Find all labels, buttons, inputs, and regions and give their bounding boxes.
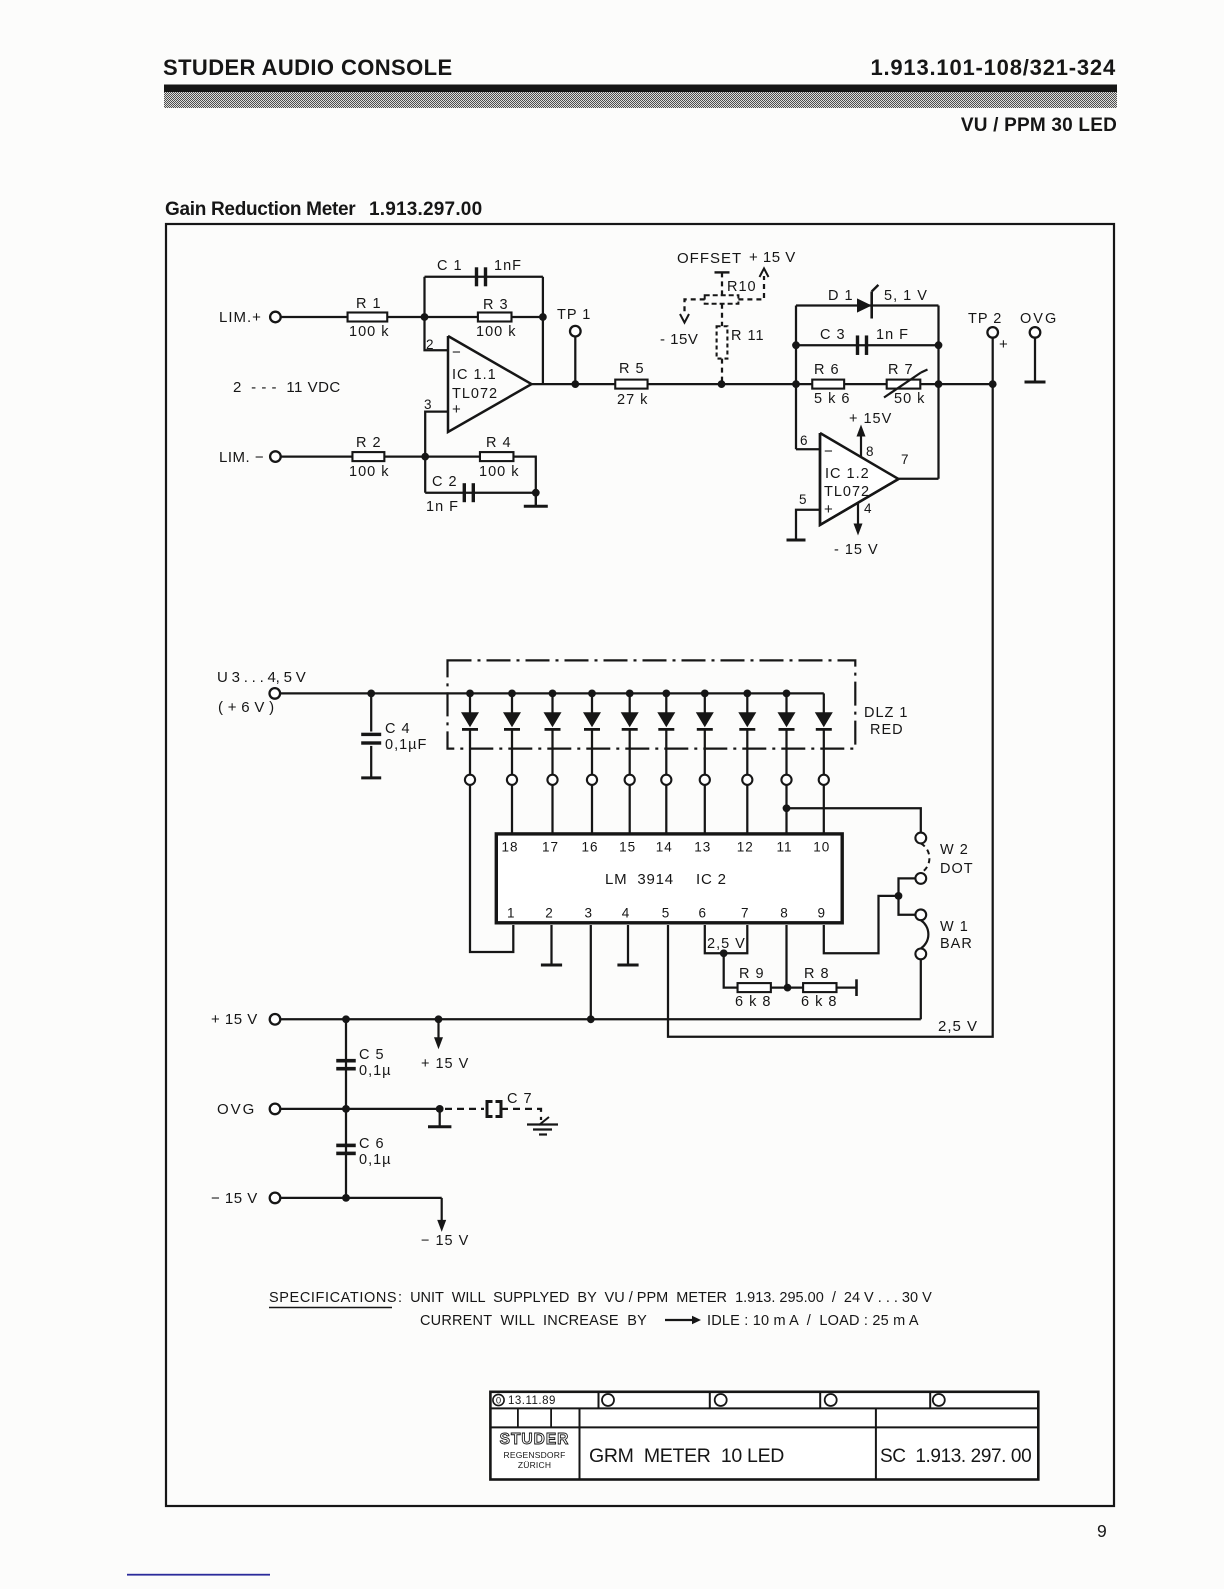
- wire W1 to +15V rail: [920, 959, 922, 1019]
- svg-text:IC 1.1: IC 1.1: [452, 367, 497, 383]
- jumper W2 DOT: [915, 833, 926, 844]
- diode DLZ1 element 3: [549, 690, 557, 698]
- svg-text:1n F: 1n F: [426, 499, 459, 515]
- svg-text:18: 18: [501, 840, 518, 855]
- connector pin circle column 4: [587, 775, 597, 785]
- svg-text:SPECIFICATIONS: SPECIFICATIONS: [269, 1290, 397, 1306]
- schematic border frame: [166, 224, 1114, 1506]
- svg-text:VU / PPM 30 LED: VU / PPM 30 LED: [961, 115, 1117, 136]
- svg-text:+: +: [999, 336, 1009, 353]
- wire column 8 to IC2 pin: [746, 785, 748, 834]
- revision circle: [715, 1394, 727, 1406]
- wire column 1 to IC2 pin 1: [470, 785, 513, 952]
- svg-text:R 7: R 7: [888, 362, 914, 378]
- title block middle divider: [875, 1408, 877, 1479]
- svg-text:−: −: [452, 344, 462, 361]
- title block top row line: [490, 1407, 1038, 1409]
- svg-text:4: 4: [622, 906, 631, 921]
- diode DLZ1 element 8: [743, 690, 751, 698]
- svg-text:11: 11: [776, 840, 792, 855]
- wire pin11 to W2: [783, 804, 791, 812]
- svg-text:−: −: [824, 443, 834, 460]
- diode DLZ1 element 2: [508, 690, 516, 698]
- svg-text:9: 9: [1097, 1521, 1107, 1541]
- connector pin circle column 1: [465, 775, 475, 785]
- diode DLZ1 element 6: [662, 690, 670, 698]
- svg-text:C 1: C 1: [437, 258, 463, 274]
- svg-text:R 4: R 4: [486, 435, 512, 451]
- OVG ground stub: [439, 1109, 441, 1127]
- op-amp IC1.2 TL072: [820, 433, 899, 525]
- wire column 3 to IC2 pin: [551, 785, 553, 834]
- revision circle: [602, 1394, 614, 1406]
- svg-text:5: 5: [799, 492, 808, 507]
- header black rule: [164, 85, 1117, 93]
- svg-text:27 k: 27 k: [617, 392, 648, 408]
- svg-text:+ 15V: + 15V: [849, 411, 892, 427]
- svg-text:DOT: DOT: [940, 861, 974, 877]
- connector pin circle column 3: [547, 775, 557, 785]
- wire +15V rail: [280, 1018, 921, 1020]
- connector pin circle column 7: [700, 775, 710, 785]
- svg-text:IC 2: IC 2: [696, 871, 727, 888]
- node TP2/output: [989, 380, 997, 388]
- wire column 9 to IC2 pin: [785, 785, 787, 834]
- svg-text:- 15V: - 15V: [660, 331, 698, 348]
- svg-text:OFFSET: OFFSET: [677, 250, 742, 267]
- svg-text:5: 5: [662, 906, 671, 921]
- svg-text:IC 1.2: IC 1.2: [825, 466, 870, 482]
- svg-text:LIM.+: LIM.+: [219, 309, 262, 326]
- svg-text:( + 6 V ): ( + 6 V ): [218, 699, 274, 716]
- svg-text:TL072: TL072: [452, 386, 498, 402]
- diode DLZ1 element 4: [588, 690, 596, 698]
- capacitor C6 0.1u: [345, 1109, 347, 1198]
- node C4 tap: [367, 690, 375, 698]
- resistor R5 27k: [615, 380, 647, 389]
- svg-text:LIM. −: LIM. −: [219, 449, 264, 466]
- svg-text:2,5 V: 2,5 V: [938, 1018, 978, 1035]
- svg-text:7: 7: [741, 906, 750, 921]
- svg-text:14: 14: [656, 840, 673, 855]
- title block frame: [490, 1392, 1038, 1480]
- connector pin circle column 5: [625, 775, 635, 785]
- node R2/R4/C2/pin3: [421, 453, 429, 461]
- IC2 pin 2 ground: [550, 925, 552, 965]
- svg-text:0: 0: [496, 1396, 501, 1407]
- svg-text:− 15 V: − 15 V: [211, 1190, 258, 1207]
- svg-text:REGENSDORF: REGENSDORF: [504, 1450, 566, 1460]
- svg-text:STUDER AUDIO CONSOLE: STUDER AUDIO CONSOLE: [163, 55, 453, 80]
- svg-text:100 k: 100 k: [479, 464, 519, 480]
- title block top row divider: [709, 1392, 711, 1409]
- svg-text:LM 3914: LM 3914: [605, 871, 674, 888]
- connector pin circle column 9: [781, 775, 791, 785]
- title block top row divider: [929, 1392, 931, 1409]
- svg-text:2 - - - 11 VDC: 2 - - - 11 VDC: [233, 379, 341, 396]
- svg-text:C 3: C 3: [820, 327, 846, 343]
- wire anode rail: [280, 692, 824, 694]
- svg-text:+ 15 V: + 15 V: [749, 249, 796, 266]
- svg-text:100 k: 100 k: [349, 464, 389, 480]
- trimmer R7 50k: [887, 380, 921, 389]
- svg-text:R 11: R 11: [731, 328, 765, 344]
- title block logo cell: [579, 1408, 581, 1479]
- svg-text:6 k 8: 6 k 8: [735, 994, 771, 1010]
- svg-text:6: 6: [699, 906, 708, 921]
- capacitor C5 0.1u: [345, 1019, 347, 1109]
- IC2 pin 8 wire down: [785, 925, 787, 988]
- dashed wire R10 left to -15V arrow: [685, 299, 705, 315]
- -15V branch arrow: [441, 1197, 443, 1199]
- svg-text:5 k 6: 5 k 6: [814, 391, 850, 407]
- connector pin circle column 2: [507, 775, 517, 785]
- svg-text:BAR: BAR: [940, 936, 973, 952]
- connector pin circle column 10: [819, 775, 829, 785]
- svg-text:DLZ 1: DLZ 1: [864, 705, 909, 721]
- capacitor C1 1nF feedback: [423, 277, 425, 317]
- IC2 pin 4 ground: [627, 925, 629, 965]
- potentiometer R10 dashed: [705, 295, 739, 304]
- svg-text:15: 15: [619, 840, 636, 855]
- svg-text:C 7: C 7: [507, 1091, 533, 1107]
- svg-text:3: 3: [585, 906, 594, 921]
- wire LIM.+ to R1: [281, 316, 348, 318]
- svg-text:TP 1: TP 1: [557, 307, 591, 323]
- wire feedback right vertical: [937, 306, 939, 479]
- svg-text:13.11.89: 13.11.89: [508, 1395, 556, 1407]
- resistor R11 dashed: [721, 304, 723, 327]
- resistor R1 100k: [348, 313, 388, 322]
- earth ground symbol: [539, 1117, 549, 1125]
- svg-text:1.913.297.00: 1.913.297.00: [369, 199, 482, 220]
- ground under C2 node: [535, 493, 537, 507]
- wire column 10 to IC2 pin: [823, 785, 825, 834]
- svg-text:W 1: W 1: [940, 919, 969, 935]
- svg-text:U 3 . . . 4, 5 V: U 3 . . . 4, 5 V: [217, 669, 306, 686]
- offset terminal dashed tee: [715, 271, 730, 273]
- connector pin circle column 8: [742, 775, 752, 785]
- pin 8 +15V supply arrow: [860, 435, 862, 458]
- svg-text:TP 2: TP 2: [968, 311, 1002, 327]
- wire pin 7 output: [899, 478, 939, 480]
- svg-text:IDLE : 10 m A / LOAD : 25 m: IDLE : 10 m A / LOAD : 25 m A: [707, 1313, 919, 1329]
- svg-text:R 8: R 8: [804, 966, 830, 982]
- wire R4 to C2 right node: [514, 457, 536, 493]
- svg-text:17: 17: [542, 840, 559, 855]
- svg-text:13: 13: [694, 840, 711, 855]
- svg-text:R 3: R 3: [483, 297, 509, 313]
- svg-text:R 9: R 9: [739, 966, 765, 982]
- pin 4 -15V supply arrow: [857, 503, 859, 526]
- revision circle: [933, 1394, 945, 1406]
- wire LIM.- to R2: [281, 455, 353, 457]
- svg-text:RED: RED: [870, 722, 904, 738]
- svg-text:STUDER: STUDER: [500, 1431, 570, 1448]
- diode DLZ1 element 1: [466, 690, 474, 698]
- svg-text:7: 7: [901, 452, 910, 467]
- node feedback left: [792, 380, 800, 388]
- svg-text:50 k: 50 k: [894, 391, 925, 407]
- dashed wire R11 to summing node: [721, 359, 723, 385]
- wire pin 6: [796, 448, 820, 450]
- revision circle 0 and date 13.11.89: [493, 1394, 504, 1405]
- diode DLZ1 element 5: [626, 690, 634, 698]
- svg-text:OVG: OVG: [1020, 311, 1058, 327]
- resistor R4 100k: [480, 452, 514, 461]
- svg-text:- 15 V: - 15 V: [834, 542, 879, 558]
- svg-text:10: 10: [813, 840, 830, 855]
- wire R1 to node: [387, 316, 478, 318]
- capacitor C3 1nF: [796, 344, 939, 346]
- IC2 ref pins 6,7 2.5V bracket: [705, 925, 748, 953]
- svg-text:OVG: OVG: [217, 1101, 256, 1118]
- header gray halftone rule: [164, 92, 1117, 108]
- svg-text:R 1: R 1: [356, 296, 382, 312]
- capacitor C7 feedthrough: [487, 1102, 501, 1117]
- svg-text:100 k: 100 k: [349, 324, 389, 340]
- title block top row divider: [819, 1392, 821, 1409]
- IC2 pin 9 mode wire: [824, 896, 899, 953]
- svg-text:SC 1.913. 297. 00: SC 1.913. 297. 00: [880, 1446, 1031, 1467]
- svg-text:GRM METER 10 LED: GRM METER 10 LED: [589, 1445, 784, 1467]
- IC2 pin 5 signal wire: [668, 384, 993, 1037]
- svg-text:C 6: C 6: [359, 1136, 385, 1152]
- diode D1 zener 5.1V: [796, 304, 939, 306]
- dashed wire C7 to earth: [501, 1109, 541, 1120]
- svg-text:+ 15 V: + 15 V: [421, 1056, 469, 1072]
- svg-text:0,1µ: 0,1µ: [359, 1152, 392, 1168]
- wire C1 node down to output node: [542, 317, 544, 384]
- svg-text:9: 9: [818, 906, 827, 921]
- svg-text:6 k 8: 6 k 8: [801, 994, 837, 1010]
- dashed wire R10 right to +15V arrow: [738, 276, 764, 299]
- wire IC1.1 output line: [532, 383, 993, 385]
- jumper W1 BAR: [899, 896, 916, 915]
- svg-text:Gain Reduction Meter: Gain Reduction Meter: [165, 199, 356, 220]
- svg-text:6: 6: [800, 433, 809, 448]
- svg-text:+: +: [824, 501, 834, 518]
- svg-text:12: 12: [737, 840, 754, 855]
- svg-text:TL072: TL072: [824, 484, 870, 500]
- svg-text:ZÜRICH: ZÜRICH: [518, 1460, 551, 1470]
- svg-text:3: 3: [424, 397, 433, 412]
- svg-text:C 5: C 5: [359, 1047, 385, 1063]
- resistor R2 100k: [352, 452, 384, 461]
- svg-text:C 2: C 2: [432, 474, 458, 490]
- wire feedback left vertical: [795, 306, 797, 450]
- svg-text:D 1: D 1: [828, 288, 854, 304]
- wire pin 5 and ground: [796, 510, 820, 540]
- wire ref node to R9: [724, 953, 738, 987]
- svg-text:C 4: C 4: [385, 721, 411, 737]
- revision circle: [825, 1394, 837, 1406]
- node C2/R4/ground: [532, 489, 540, 497]
- title block top row divider: [598, 1392, 600, 1409]
- svg-text:R10: R10: [727, 279, 757, 295]
- svg-text:8: 8: [866, 444, 875, 459]
- resistor R8 6k8: [803, 983, 836, 992]
- wire R9 to node pin8: [771, 986, 803, 988]
- wire column 4 to IC2 pin: [591, 785, 593, 834]
- svg-text:100 k: 100 k: [476, 324, 516, 340]
- DLZ1 dash-dot outline: [448, 660, 856, 748]
- svg-text:2,5 V: 2,5 V: [707, 936, 746, 952]
- capacitor C4 0.1uF: [370, 693, 372, 731]
- dashed wire OVG to C7: [445, 1108, 484, 1110]
- svg-text:1n F: 1n F: [876, 327, 909, 343]
- svg-text:4: 4: [864, 501, 873, 516]
- svg-text:: UNIT WILL SUPPLYED BY V: : UNIT WILL SUPPLYED BY VU / PPM METER 1…: [398, 1290, 932, 1306]
- svg-text:2: 2: [545, 906, 554, 921]
- svg-text:+ 15 V: + 15 V: [211, 1011, 258, 1028]
- svg-text:0,1µF: 0,1µF: [385, 737, 427, 753]
- svg-text:1: 1: [507, 906, 516, 921]
- resistor R9 6k8: [738, 983, 771, 992]
- svg-text:2: 2: [426, 337, 435, 352]
- IC U2 LM3914 body: [496, 834, 842, 923]
- +15V branch arrow: [437, 1019, 439, 1039]
- wire R3 to node: [512, 316, 543, 318]
- connector pin circle column 6: [661, 775, 671, 785]
- svg-text:CURRENT WILL INCREASE BY: CURRENT WILL INCREASE BY: [420, 1313, 647, 1329]
- node mode W1/W2: [895, 892, 903, 900]
- svg-text:8: 8: [780, 906, 789, 921]
- svg-text:+: +: [452, 401, 462, 418]
- wire -15V rail: [280, 1197, 441, 1199]
- op-amp IC1.1 TL072: [448, 336, 532, 432]
- svg-text:0,1µ: 0,1µ: [359, 1063, 392, 1079]
- IC2 pin 3 wire to +15V rail: [590, 925, 592, 1019]
- wire OVG rail: [280, 1108, 439, 1110]
- blue scan mark line: [127, 1574, 270, 1576]
- svg-text:1nF: 1nF: [494, 258, 522, 274]
- svg-text:R 5: R 5: [619, 361, 645, 377]
- diode DLZ1 element 10: [823, 693, 825, 712]
- capacitor C2 1nF: [424, 457, 426, 493]
- svg-text:R 6: R 6: [814, 362, 840, 378]
- svg-text:R 2: R 2: [356, 435, 382, 451]
- diode DLZ1 element 7: [701, 690, 709, 698]
- resistor R6 5k6: [812, 380, 844, 389]
- wire R2 to node: [384, 455, 480, 457]
- wire column 2 to IC2 pin: [511, 785, 513, 834]
- svg-text:− 15 V: − 15 V: [421, 1233, 469, 1249]
- resistor R3 100k: [478, 313, 512, 322]
- diode DLZ1 element 9: [783, 690, 791, 698]
- svg-text:1.913.101-108/321-324: 1.913.101-108/321-324: [870, 55, 1116, 80]
- node R1/R3/C1/pin2: [421, 313, 429, 321]
- svg-text:W 2: W 2: [940, 842, 969, 858]
- node R3/C1 right: [539, 313, 547, 321]
- wire node to op-amp pin 3: [425, 412, 448, 457]
- wire column 7 to IC2 pin: [704, 785, 706, 834]
- wire node to op-amp pin 2: [425, 317, 449, 350]
- node R11/output line: [718, 380, 726, 388]
- wire column 6 to IC2 pin: [665, 785, 667, 834]
- wire column 5 to IC2 pin: [629, 785, 631, 834]
- wire R8 to stub terminator: [837, 986, 857, 988]
- svg-text:5, 1 V: 5, 1 V: [884, 288, 928, 304]
- svg-text:16: 16: [581, 840, 598, 855]
